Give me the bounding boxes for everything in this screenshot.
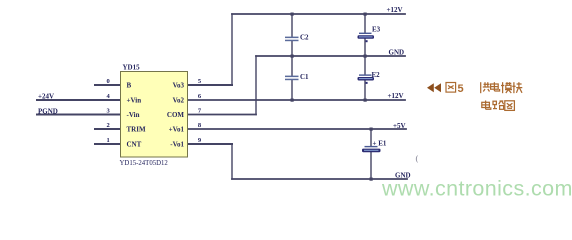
node junction top rail E3 [364,13,367,16]
node junction GND rail C1 [291,55,294,58]
svg-text:8: 8 [198,122,202,129]
wire GND rail [256,55,405,57]
svg-text:5: 5 [458,83,464,95]
wire pin B stub [95,84,121,86]
wire GND bottom rail [232,178,407,180]
svg-text:-Vo1: -Vo1 [170,141,184,149]
wire C1 leads [291,56,293,76]
svg-text:(: ( [416,154,419,163]
svg-text:9: 9 [198,137,202,144]
caption line2 char dian (electric) [482,101,491,110]
svg-text:CNT: CNT [127,141,142,149]
svg-text:YD15: YD15 [123,64,141,72]
svg-text:+Vo1: +Vo1 [169,126,185,134]
svg-text:+12V: +12V [388,92,404,100]
capacitor E3 electrolytic [358,33,375,43]
wire Vo2 +12V rail [188,99,406,101]
svg-text:TRIM: TRIM [127,126,146,134]
svg-text:0: 0 [107,78,110,85]
node junction top rail C2 [291,13,294,16]
node junction +5V rail E1 [370,128,373,131]
caption char dian (electric) [491,82,500,91]
svg-text:B: B [127,82,132,90]
wire Vo3 riser [231,14,233,85]
node junction +12V rail E2 [364,99,367,102]
caption char gong (supply) [481,82,490,93]
svg-text:COM: COM [167,111,185,119]
svg-text:+Vin: +Vin [127,97,142,105]
svg-text:C2: C2 [300,34,309,42]
svg-text:1: 1 [107,137,110,144]
node junction GND bottom E1 [370,178,373,181]
capacitor E1 electrolytic [362,146,381,152]
wire E1 leads [370,129,372,146]
wire -Vo1 to drop [188,143,233,145]
wire CNT stub [95,143,121,145]
wire Vo3 to riser [188,84,233,86]
wire +Vo1 +5V rail [188,128,407,130]
wire E2 leads [364,56,366,75]
svg-text:E3: E3 [372,26,381,34]
wire C2 leads [291,14,293,37]
wire TRIM stub [95,128,121,130]
svg-text:-Vin: -Vin [127,111,140,119]
wire COM riser [255,56,257,115]
svg-text:+5V: +5V [393,122,406,130]
svg-text:E2: E2 [372,71,381,79]
wire COM to riser [188,114,257,116]
svg-text:4: 4 [107,93,111,100]
caption char tu (figure) [446,83,456,93]
wire +24V input [37,99,121,101]
svg-text:5: 5 [198,78,202,85]
capacitor E2 electrolytic [358,74,375,84]
node junction +12V rail C1 [291,99,294,102]
svg-text:www.cntronics.com: www.cntronics.com [381,177,572,201]
svg-text:Vo3: Vo3 [173,82,185,90]
svg-text:6: 6 [198,93,202,100]
svg-text:+12V: +12V [387,6,403,14]
caption char mo (module) [501,82,512,93]
svg-text:7: 7 [198,108,202,115]
caption line2 char tu (figure) [505,101,515,111]
svg-text:2: 2 [107,122,110,129]
wire -Vo1 drop [231,144,233,179]
capacitor C2 [285,37,299,42]
svg-text:Vo2: Vo2 [173,97,185,105]
wire PGND input [37,114,121,116]
svg-text:3: 3 [107,108,111,115]
svg-text:+ E1: + E1 [373,140,387,148]
wire +12V top rail [232,13,405,15]
svg-text:PGND: PGND [38,108,58,116]
capacitor C1 [285,76,299,81]
caption line2 char lu (road) [493,101,504,109]
caption char kuai (block) [512,82,522,93]
svg-text:GND: GND [389,49,405,57]
op-amp U1 IC body YD15 [121,72,188,158]
svg-text:YD15-24T05D12: YD15-24T05D12 [120,160,169,167]
svg-text:+24V: +24V [38,93,54,101]
wire E3 leads [364,14,366,33]
svg-text:C1: C1 [300,73,309,81]
node junction GND rail E2 [364,55,367,58]
caption arrow triangles [427,83,441,92]
